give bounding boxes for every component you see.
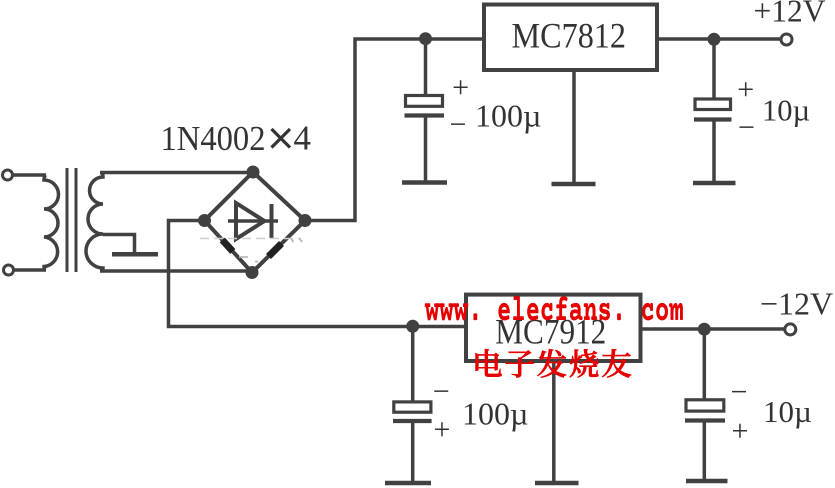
svg-text:+: +: [737, 73, 754, 106]
regulator U1 MC7812 box: [484, 5, 657, 71]
svg-text:−: −: [738, 111, 755, 144]
wire C2 to ground: [712, 121, 716, 182]
wire: [13, 173, 47, 177]
svg-text:100µ: 100µ: [475, 98, 541, 134]
svg-text:10µ: 10µ: [762, 93, 810, 127]
node C1 junction: [419, 32, 432, 45]
terminal +12V: [781, 34, 792, 45]
watermark www.elecfans.com: [425, 296, 683, 320]
wire bridge right to top rail: [305, 39, 484, 221]
terminal -12V: [785, 324, 796, 335]
wire center tap: [103, 235, 135, 253]
svg-text:+: +: [452, 71, 469, 104]
capacitor C2 10u top plate: [695, 99, 731, 110]
ground C2: [693, 181, 736, 186]
capacitor C4 10u top plate: [686, 400, 724, 411]
svg-text:−12V: −12V: [760, 286, 833, 322]
diode symbol cathode bar: [270, 204, 274, 238]
wire U2 ground pin: [552, 361, 556, 481]
diode symbol triangle: [236, 203, 265, 239]
regulator U2 MC7912 box: [466, 295, 641, 361]
svg-text:10µ: 10µ: [763, 394, 812, 429]
wire U2 output rail: [641, 327, 785, 331]
svg-text:+: +: [433, 413, 450, 446]
ghost watermark remnants: [200, 238, 301, 240]
capacitor C1 100u top plate: [406, 96, 443, 107]
transformer T1 primary terminal bottom: [4, 265, 14, 275]
capacitor C3 100u bottom plate: [393, 419, 432, 423]
ground center tap: [112, 252, 158, 257]
svg-text:+: +: [732, 415, 749, 448]
capacitor C2 10u bottom plate: [694, 117, 732, 121]
wire C3 lead: [411, 327, 415, 403]
ground C1: [402, 180, 447, 185]
wire C1 lead: [424, 39, 428, 97]
wire C4 lead: [703, 329, 707, 401]
capacitor C3 100u top plate: [394, 402, 431, 412]
transformer T1 primary winding: [44, 175, 59, 270]
node C3 junction: [406, 320, 419, 333]
wire C4 to ground: [703, 422, 707, 479]
wire secondary top to bridge top: [100, 171, 253, 175]
node bridge bottom: [246, 266, 259, 279]
svg-text:−: −: [433, 375, 450, 408]
wire bridge left to bottom rail: [169, 221, 467, 327]
wire C1 to ground: [424, 117, 428, 182]
node bridge right: [299, 214, 312, 227]
ground C4: [686, 479, 728, 484]
wire U1 output rail: [657, 37, 780, 41]
bridge rectifier D1-D4 diamond: [205, 172, 306, 273]
wire U1 ground pin: [572, 70, 576, 182]
svg-text:MC7812: MC7812: [512, 16, 627, 56]
wire C3 to ground: [411, 422, 415, 481]
ground C3: [385, 481, 431, 486]
svg-text:100µ: 100µ: [462, 396, 528, 432]
node bridge left: [198, 214, 211, 227]
wire: [14, 268, 47, 272]
capacitor C4 10u bottom plate: [685, 418, 725, 422]
svg-text:−: −: [450, 108, 467, 141]
ground U2: [535, 481, 579, 486]
transformer T1 primary terminal top: [3, 170, 13, 180]
svg-text:4: 4: [294, 118, 312, 157]
node C4 junction: [698, 323, 711, 336]
svg-text:+12V: +12V: [754, 0, 826, 28]
ground U1: [552, 182, 596, 187]
capacitor C1 100u bottom plate: [405, 113, 445, 117]
node C2 junction: [708, 33, 721, 46]
diode symbol anode-cathode line: [228, 219, 278, 223]
wire C2 lead: [712, 39, 716, 100]
transformer T1 core: [66, 168, 69, 272]
svg-text:−: −: [730, 376, 747, 409]
node bridge top: [247, 166, 260, 179]
watermark dianzifashaoyou: [476, 349, 632, 378]
wire secondary bottom to bridge bottom: [100, 269, 252, 273]
svg-text:1N4002: 1N4002: [161, 119, 266, 158]
transformer T1 secondary winding: [86, 173, 103, 272]
